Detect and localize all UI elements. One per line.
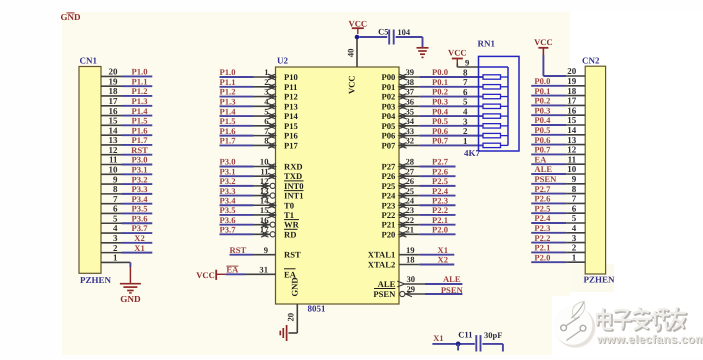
svg-text:P03: P03 [381,101,395,111]
svg-text:8: 8 [463,67,468,77]
svg-text:CN1: CN1 [80,56,98,66]
svg-text:P3.5: P3.5 [220,205,236,215]
svg-text:P02: P02 [381,92,395,102]
svg-text:2: 2 [113,243,118,253]
svg-text:P0.3: P0.3 [432,97,448,107]
svg-text:14: 14 [567,125,577,135]
svg-text:P1.4: P1.4 [132,106,149,116]
svg-text:P3.2: P3.2 [132,174,148,184]
svg-text:P0.0: P0.0 [534,76,550,86]
svg-text:5: 5 [264,106,268,116]
svg-text:P1.2: P1.2 [132,86,148,96]
svg-text:P00: P00 [381,72,395,82]
svg-text:T0: T0 [284,200,294,210]
svg-text:4K7: 4K7 [464,148,481,158]
svg-text:INT1: INT1 [284,191,304,201]
svg-text:21: 21 [406,225,415,235]
svg-text:P01: P01 [381,82,395,92]
svg-text:ALE: ALE [534,164,552,174]
svg-text:3: 3 [264,87,268,97]
svg-text:TXD: TXD [284,171,302,181]
svg-text:P1.5: P1.5 [220,116,236,126]
svg-text:6: 6 [113,204,118,214]
svg-text:INT0: INT0 [284,181,304,191]
svg-text:10: 10 [260,157,269,167]
svg-text:X2: X2 [134,233,145,243]
svg-text:PSEN: PSEN [373,289,396,299]
svg-text:1: 1 [113,253,118,263]
svg-text:P2.7: P2.7 [432,157,449,167]
svg-text:30pF: 30pF [484,330,502,340]
svg-text:GND: GND [290,277,300,296]
svg-text:14: 14 [109,125,119,135]
svg-text:20: 20 [567,66,577,76]
svg-text:P3.3: P3.3 [220,186,236,196]
svg-text:P1.7: P1.7 [220,136,237,146]
svg-text:P0.5: P0.5 [534,125,550,135]
svg-text:P0.4: P0.4 [534,115,551,125]
svg-text:P2.6: P2.6 [534,194,551,204]
svg-text:P1.3: P1.3 [132,96,148,106]
svg-text:RN1: RN1 [478,39,496,49]
svg-text:PZHEN: PZHEN [80,275,112,285]
svg-text:P10: P10 [284,72,298,82]
svg-text:19: 19 [109,76,119,86]
svg-text:X1: X1 [433,333,444,343]
svg-text:P14: P14 [284,111,299,121]
svg-text:P1.0: P1.0 [132,67,148,77]
svg-text:U2: U2 [277,56,288,66]
svg-text:5: 5 [113,213,118,223]
svg-text:15: 15 [260,205,269,215]
svg-text:P1.7: P1.7 [132,135,149,145]
svg-text:P11: P11 [284,82,297,92]
svg-text:P26: P26 [381,171,396,181]
svg-text:RST: RST [284,250,301,260]
svg-text:C11: C11 [458,329,472,339]
svg-text:18: 18 [109,86,119,96]
svg-text:RD: RD [284,229,296,239]
svg-text:GND: GND [120,294,141,304]
svg-text:36: 36 [406,97,415,107]
svg-text:10: 10 [109,165,119,175]
svg-text:40: 40 [346,49,356,58]
svg-text:16: 16 [109,106,119,116]
svg-text:P2.2: P2.2 [432,205,448,215]
svg-text:P1.0: P1.0 [220,67,236,77]
svg-text:P05: P05 [381,121,395,131]
svg-text:P3.6: P3.6 [132,213,149,223]
svg-text:14: 14 [260,195,269,205]
svg-text:VCC: VCC [448,47,467,57]
svg-text:7: 7 [572,194,577,204]
svg-text:P1.1: P1.1 [220,77,236,87]
svg-text:PSEN: PSEN [534,174,557,184]
svg-text:8: 8 [572,184,577,194]
svg-text:P0.5: P0.5 [432,116,448,126]
svg-text:P2.3: P2.3 [534,223,550,233]
svg-text:P2.7: P2.7 [534,184,551,194]
svg-text:P0.6: P0.6 [534,135,551,145]
svg-text:T1: T1 [284,210,294,220]
svg-text:P3.1: P3.1 [132,165,148,175]
svg-text:4: 4 [572,223,577,233]
svg-text:4: 4 [463,106,468,116]
svg-text:PZHEN: PZHEN [584,275,616,285]
svg-text:ALE: ALE [378,279,396,289]
svg-text:27: 27 [406,166,415,176]
svg-text:16: 16 [567,105,577,115]
svg-text:6: 6 [264,116,269,126]
svg-text:9: 9 [113,174,118,184]
svg-text:X2: X2 [438,255,449,265]
svg-text:P07: P07 [381,140,396,150]
svg-text:P1.2: P1.2 [220,87,236,97]
svg-text:12: 12 [109,145,119,155]
svg-text:P3.5: P3.5 [132,204,148,214]
svg-text:35: 35 [406,106,415,116]
svg-text:P04: P04 [381,111,396,121]
svg-text:P3.0: P3.0 [132,155,148,165]
svg-text:6: 6 [463,87,468,97]
svg-text:19: 19 [567,76,577,86]
svg-text:25: 25 [406,186,415,196]
svg-text:P2.2: P2.2 [534,233,550,243]
svg-text:34: 34 [406,116,415,126]
svg-text:XTAL2: XTAL2 [368,260,396,270]
svg-text:15: 15 [109,116,119,126]
svg-text:P0.1: P0.1 [432,77,448,87]
svg-text:P17: P17 [284,140,299,150]
svg-text:P2.5: P2.5 [534,203,550,213]
svg-text:P2.0: P2.0 [432,225,448,235]
svg-text:P2.5: P2.5 [432,176,448,186]
svg-text:VCC: VCC [196,270,215,280]
svg-text:P0.2: P0.2 [432,87,448,97]
svg-text:P2.4: P2.4 [534,213,551,223]
svg-text:11: 11 [109,155,118,165]
svg-text:P0.2: P0.2 [534,96,550,106]
svg-text:P24: P24 [381,191,396,201]
svg-text:32: 32 [406,136,415,146]
svg-text:9: 9 [572,174,577,184]
svg-text:4: 4 [113,223,118,233]
svg-text:10: 10 [567,164,577,174]
svg-text:9: 9 [264,245,268,255]
svg-text:30: 30 [407,274,416,284]
svg-text:P0.0: P0.0 [432,67,448,77]
svg-text:17: 17 [567,96,577,106]
svg-text:P21: P21 [381,220,395,230]
svg-text:38: 38 [406,77,415,87]
svg-text:P25: P25 [381,181,395,191]
svg-text:12: 12 [567,145,577,155]
svg-text:P3.6: P3.6 [220,215,237,225]
svg-text:26: 26 [406,176,415,186]
svg-text:9: 9 [465,57,469,67]
svg-text:7: 7 [113,194,118,204]
svg-text:P2.0: P2.0 [534,252,550,262]
svg-text:2: 2 [572,243,577,253]
svg-text:5: 5 [463,97,468,107]
svg-text:P3.7: P3.7 [132,223,149,233]
svg-text:VCC: VCC [534,37,553,47]
svg-text:P3.3: P3.3 [132,184,148,194]
svg-text:RXD: RXD [284,162,303,172]
svg-text:7: 7 [463,77,468,87]
svg-text:www.elecfans.com: www.elecfans.com [596,333,703,346]
svg-text:13: 13 [567,135,577,145]
svg-text:C5: C5 [378,26,388,36]
svg-text:18: 18 [567,86,577,96]
svg-text:P3.7: P3.7 [220,225,237,235]
svg-text:P1.5: P1.5 [132,116,148,126]
svg-text:20: 20 [109,67,119,77]
svg-text:20: 20 [286,313,296,322]
svg-text:P13: P13 [284,101,298,111]
svg-text:22: 22 [406,215,415,225]
svg-text:EA: EA [534,154,547,164]
svg-text:P1.6: P1.6 [220,126,237,136]
svg-text:104: 104 [397,27,411,37]
svg-text:P12: P12 [284,92,298,102]
svg-text:P16: P16 [284,131,299,141]
svg-text:P22: P22 [381,210,395,220]
svg-text:P06: P06 [381,131,396,141]
svg-text:4: 4 [264,97,269,107]
svg-text:19: 19 [406,245,415,255]
svg-text:P2.1: P2.1 [534,243,550,253]
svg-text:P1.6: P1.6 [132,125,149,135]
svg-text:PSEN: PSEN [441,285,464,295]
svg-text:1: 1 [264,67,268,77]
svg-text:ALE: ALE [443,274,461,284]
svg-text:P20: P20 [381,229,395,239]
svg-text:VCC: VCC [348,18,367,28]
svg-text:RST: RST [230,245,247,255]
svg-text:3: 3 [572,233,577,243]
svg-text:WR: WR [284,220,300,230]
svg-text:23: 23 [406,205,415,215]
svg-text:P27: P27 [381,162,396,172]
svg-text:18: 18 [406,255,415,265]
svg-text:P23: P23 [381,200,395,210]
svg-text:P0.7: P0.7 [432,136,449,146]
svg-text:CN2: CN2 [582,56,600,66]
svg-text:8: 8 [264,136,269,146]
svg-text:13: 13 [109,135,119,145]
svg-text:39: 39 [406,67,415,77]
svg-text:P1.3: P1.3 [220,97,236,107]
svg-text:P3.4: P3.4 [220,195,237,205]
svg-text:5: 5 [572,213,577,223]
svg-text:11: 11 [568,154,577,164]
svg-text:33: 33 [406,126,415,136]
svg-text:29: 29 [407,284,416,294]
svg-text:P15: P15 [284,121,298,131]
svg-text:7: 7 [264,126,269,136]
svg-text:P0.1: P0.1 [534,86,550,96]
svg-text:2: 2 [264,77,268,87]
svg-text:37: 37 [406,87,415,97]
svg-text:P2.3: P2.3 [432,195,448,205]
svg-text:6: 6 [572,203,577,213]
svg-text:VCC: VCC [346,75,356,94]
svg-text:P3.0: P3.0 [220,157,236,167]
svg-text:31: 31 [259,265,268,275]
svg-text:P1.4: P1.4 [220,106,237,116]
svg-text:8051: 8051 [308,304,327,314]
svg-text:3: 3 [113,233,118,243]
svg-text:P0.4: P0.4 [432,106,449,116]
svg-text:P0.3: P0.3 [534,105,550,115]
svg-text:P3.2: P3.2 [220,176,236,186]
svg-text:P0.7: P0.7 [534,145,551,155]
svg-text:8: 8 [113,184,118,194]
svg-text:3: 3 [463,116,468,126]
svg-text:2: 2 [463,126,468,136]
svg-text:XTAL1: XTAL1 [368,250,396,260]
svg-text:1: 1 [572,252,577,262]
svg-text:RST: RST [131,145,148,155]
svg-text:24: 24 [406,195,415,205]
svg-text:P3.1: P3.1 [220,166,236,176]
svg-text:X1: X1 [438,245,449,255]
svg-text:X1: X1 [134,243,145,253]
svg-text:1: 1 [463,136,468,146]
svg-text:P2.4: P2.4 [432,186,449,196]
svg-text:15: 15 [567,115,577,125]
svg-text:P2.1: P2.1 [432,215,448,225]
svg-text:P1.1: P1.1 [132,76,148,86]
svg-text:P0.6: P0.6 [432,126,449,136]
svg-text:P3.4: P3.4 [132,194,149,204]
svg-text:17: 17 [109,96,119,106]
svg-text:28: 28 [406,157,415,167]
svg-text:P2.6: P2.6 [432,166,449,176]
svg-text:11: 11 [260,166,268,176]
